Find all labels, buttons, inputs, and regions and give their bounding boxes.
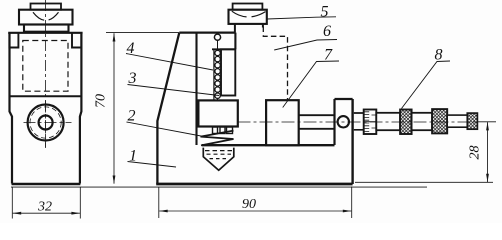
svg-text:3: 3: [128, 70, 137, 87]
svg-text:1: 1: [129, 148, 137, 165]
body top edge: [179, 31, 235, 33]
spring coil circles: [215, 50, 220, 98]
overhang block right edge: [234, 33, 236, 50]
cap top rect: [233, 4, 263, 10]
bottom edge: [12, 183, 81, 186]
svg-text:2: 2: [128, 108, 136, 125]
rod to post bottom line: [299, 128, 334, 130]
svg-text:8: 8: [435, 47, 443, 64]
extension right: [351, 187, 353, 219]
base top edge: [202, 144, 335, 146]
bore circle: [39, 116, 53, 130]
svg-text:6: 6: [323, 23, 331, 40]
leader 1: [128, 162, 177, 168]
arrow down: [113, 176, 116, 185]
hidden slot (dashed rect): [23, 41, 68, 92]
arrow right: [343, 210, 352, 213]
arrow right: [71, 212, 80, 215]
base right / post right edge: [351, 99, 353, 184]
end knurled knob: [467, 113, 477, 129]
leader 3: [128, 85, 220, 96]
left ear: [9, 33, 18, 48]
slider clamp box: [198, 100, 237, 126]
boss chamfer circle: [30, 107, 61, 138]
leader 4: [126, 54, 213, 71]
bottom extension: [355, 181, 493, 183]
svg-text:90: 90: [242, 197, 256, 212]
arrow down: [486, 174, 489, 183]
svg-text:32: 32: [37, 200, 52, 215]
svg-text:4: 4: [127, 40, 135, 57]
divider line: [10, 95, 82, 97]
extension right: [79, 188, 81, 219]
jaw teeth: [213, 127, 218, 134]
svg-text:70: 70: [94, 94, 109, 108]
svg-text:7: 7: [324, 47, 333, 64]
top extension line: [106, 32, 179, 34]
knurled ring 1: [400, 110, 412, 135]
svg-text:28: 28: [468, 146, 483, 160]
centerline extension right: [477, 121, 496, 123]
knob neck: [24, 25, 69, 32]
leader 5: [267, 17, 336, 19]
rod pin circle: [214, 34, 220, 40]
body top edge: [8, 32, 82, 34]
sleeve cylinder: [376, 113, 400, 130]
dim line 32: [13, 212, 80, 214]
leader 7: [283, 61, 339, 108]
knurled ring 2: [432, 109, 447, 133]
post top edge: [335, 98, 353, 100]
stem post to barrel: [354, 113, 364, 130]
dim line 28: [487, 122, 489, 182]
boss outer circle: [28, 105, 64, 141]
arrow up: [486, 122, 489, 130]
arrow up: [113, 33, 116, 42]
column front vertical: [195, 33, 197, 145]
extension left: [158, 188, 160, 219]
main horizontal centerline: [238, 121, 478, 123]
barrel graduations: [364, 112, 376, 132]
vee piece: [203, 148, 234, 171]
overhang block bottom edge: [212, 48, 235, 50]
column narrow box: [221, 49, 235, 95]
centerline (left view vertical axis): [45, 0, 47, 148]
svg-text:5: 5: [321, 4, 329, 21]
arrow left: [13, 212, 22, 215]
cap dish arc: [232, 11, 266, 17]
circle crosshair vertical: [45, 101, 47, 148]
cylinder 2: [412, 113, 433, 130]
cap neck left: [234, 24, 236, 33]
body upper sides: [10, 33, 13, 184]
post left edge: [333, 99, 335, 145]
right ear: [72, 33, 81, 48]
zigzag spring: [201, 131, 234, 146]
post hole circle: [338, 116, 349, 127]
knob body: [19, 10, 73, 25]
graduated barrel: [364, 110, 377, 135]
base bottom edge: [156, 183, 352, 186]
dim line 90: [159, 210, 351, 212]
cap body: [229, 10, 267, 24]
spring channel left wall: [213, 49, 215, 100]
arrow left: [159, 210, 168, 213]
leader 8: [402, 61, 451, 109]
circle crosshair horizontal: [24, 122, 72, 124]
rod to post top line: [299, 114, 334, 116]
thin shaft: [447, 115, 467, 127]
leader 6: [274, 40, 337, 51]
knob dish arc: [33, 12, 59, 20]
cap neck right stub: [262, 24, 264, 28]
rod in overhang: [217, 33, 219, 100]
block U7: [266, 100, 299, 145]
vee piece dashes: [205, 150, 232, 152]
leader 2: [127, 122, 210, 138]
knob cap top: [31, 4, 62, 10]
dim line 70: [113, 33, 115, 183]
extension left: [11, 188, 13, 219]
body slanted front edge: [157, 33, 179, 184]
hidden stem dashed path: [263, 27, 287, 100]
